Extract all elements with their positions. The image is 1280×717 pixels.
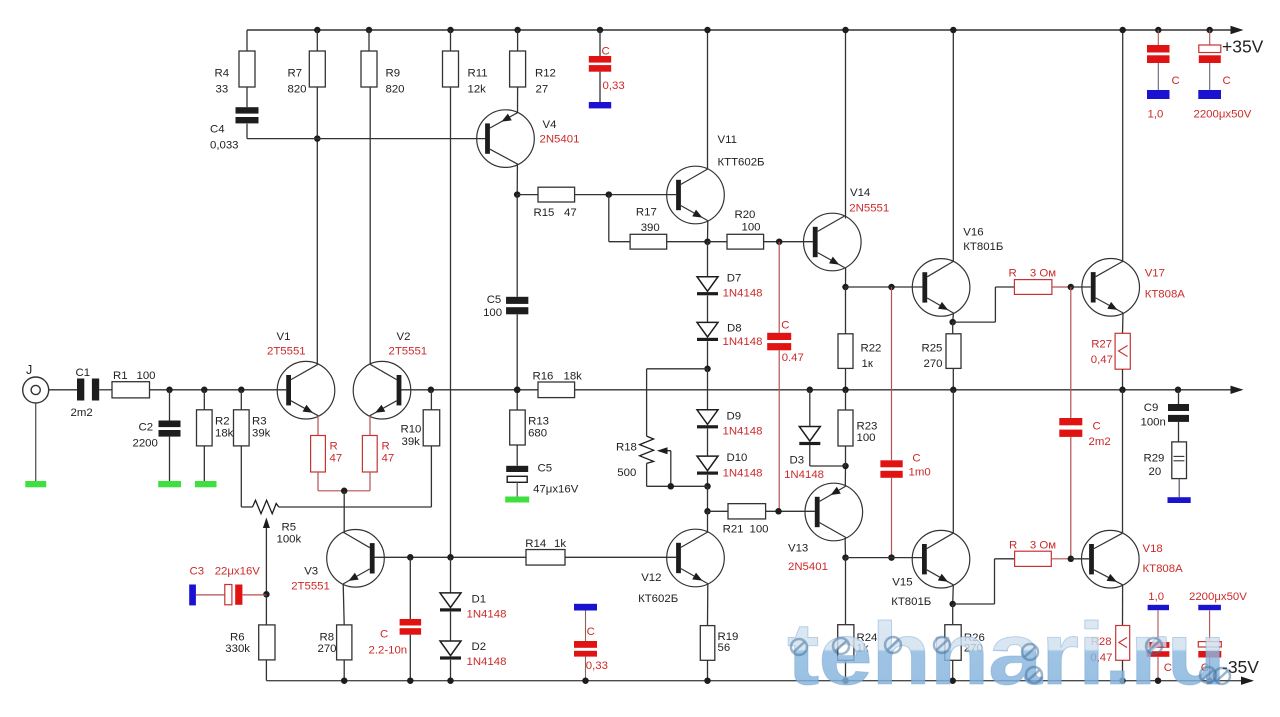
diode D2 1N4148 (450, 612, 452, 641)
wire V17 emitter to R27 (1122, 313, 1125, 333)
node R21 / red line (775, 508, 782, 515)
wire R3 to R5 (240, 446, 242, 507)
resistor R14 1k (526, 550, 565, 566)
transistor V13 2N5401 (805, 483, 863, 541)
node D2 bottom rail (447, 677, 454, 684)
node V2 base / R10 (428, 387, 435, 394)
wire rail to R9 (368, 30, 370, 51)
wire C 2.2-10n to bottom rail (409, 635, 411, 681)
wire -35V bottom rail (266, 680, 1248, 682)
wire R5 to R10 (279, 506, 432, 508)
transistor V3 2T5551 (327, 530, 385, 588)
node rail V17 collector (1119, 27, 1126, 34)
node rail / R12-V4 line (514, 387, 521, 394)
node V18 base / red line (1068, 556, 1075, 563)
wire C 2200 to bottom rail (1209, 658, 1211, 681)
transistor V4 2N5401 (477, 110, 535, 168)
wire R13 to C5 electrolytic (516, 445, 518, 466)
wire rail to C 2200 (1209, 30, 1211, 45)
node V16 emitter (949, 319, 956, 326)
resistor R13 680 (510, 410, 526, 445)
wire V4 emitter to R12 (517, 87, 519, 113)
capacitor C 2200ux50V (+35V) (1199, 45, 1221, 53)
resistor R 47 (V2 emitter) (362, 436, 377, 473)
wire D2 to bottom rail (450, 660, 452, 681)
terminal blue bar C 2200 (+35V) (1198, 90, 1221, 99)
wire V16 collector to rail (952, 30, 954, 262)
resistor R19 56 (700, 626, 715, 661)
wire red to C 2m2 (1070, 287, 1072, 418)
node rail R12 (514, 27, 521, 34)
node V13 collector (842, 554, 849, 561)
wire V15 emitter down (952, 585, 955, 604)
wire R24 to bottom rail (845, 660, 847, 680)
wire V14 emitter node to V16 base (846, 286, 923, 288)
connector J input jack (23, 377, 49, 403)
resistor R4 33 (239, 51, 255, 87)
diode D1 1N4148 (450, 557, 452, 593)
resistor R23 100 (838, 410, 853, 446)
capacitor C5 47ux16V electrolytic (506, 466, 528, 472)
diode D7 1N4148 (707, 242, 709, 277)
resistor R11 12k (443, 51, 459, 87)
capacitor C 2m2 (1059, 418, 1082, 425)
wire red C 0.47 to R21 node (778, 350, 780, 511)
node rail R7 (314, 27, 321, 34)
wire R17 to V11 emitter node (667, 241, 708, 243)
node R18 wiper (668, 483, 675, 490)
resistor R21 100 (728, 504, 766, 519)
node rail D3 (807, 387, 814, 394)
node C 1m0 red line (888, 284, 895, 291)
output rail arrow (1231, 386, 1244, 394)
node R8 bottom rail (341, 677, 348, 684)
terminal blue bar C 1,0 (-35V) (1148, 605, 1169, 610)
node R20 / C 0.47 (776, 238, 783, 245)
wire V4 collector node to C5 (516, 195, 518, 297)
wire V11 emitter to R20 (708, 241, 728, 243)
capacitor C1 2m2 (77, 379, 84, 401)
wire R 3 Ohm to V18 base node (1051, 558, 1071, 560)
wire V17 collector to rail (1122, 30, 1124, 262)
node rail R25 (950, 387, 957, 394)
wire R27 to rail (1122, 369, 1124, 390)
wire C 0,33 bypass (585, 611, 587, 642)
node rail V14 collector (842, 27, 849, 34)
wire node to C 2.2-10n (409, 557, 411, 619)
wire C 1,0 to bottom rail (1157, 657, 1159, 681)
resistor R29 20 (1172, 442, 1187, 479)
wire C 2200 (-35V) (1209, 610, 1211, 641)
wire C9 to R29 (1178, 422, 1180, 442)
wire C 0,33 bypass to rail (585, 657, 587, 681)
wire R47 V2 to common node (369, 472, 371, 491)
wire output rail (49, 389, 77, 391)
node diode chain mid (707, 341, 709, 369)
wire V1 collector (316, 87, 318, 364)
wire V14 collector to rail (845, 30, 847, 219)
resistor R10 39k (423, 410, 440, 446)
ground C5 (505, 497, 529, 503)
node C3 junction (263, 591, 270, 598)
capacitor C 1m0 (880, 460, 902, 467)
resistor R28 0,47 (1116, 626, 1130, 661)
wire V13 collector node to R24 (845, 558, 847, 625)
capacitor C 0,33 (+35V bypass) (589, 56, 611, 63)
wire V16 emitter down (952, 313, 955, 322)
ground R2 (195, 481, 217, 487)
wire R3 branch (240, 390, 242, 410)
wire V15 emitter to R26 (952, 604, 954, 625)
wire V13 collector down (844, 538, 846, 558)
terminal blue bar R29 (1168, 497, 1191, 503)
wire node down to R17 (608, 195, 610, 242)
node C 2.2-10n (407, 554, 414, 561)
wire rail to C9 (1178, 390, 1180, 404)
resistor R26 270 (945, 625, 961, 661)
capacitor C3 22u16V (189, 585, 196, 606)
node V13 emitter / R23 / D3 (842, 463, 849, 470)
resistor R27 0,47 (1115, 333, 1130, 369)
wire R29 to terminal (1178, 479, 1180, 498)
capacitor C4 0,033 (236, 107, 259, 113)
node rail R16 left (514, 387, 521, 394)
wire V12 collector up (707, 511, 709, 532)
wire V11 emitter down (707, 221, 709, 242)
node rail R11 (447, 27, 454, 34)
-35V rail arrow (1241, 677, 1254, 685)
wire V3 base to R14 row (375, 556, 526, 558)
resistor R25 270 (946, 334, 961, 369)
node V15 emitter (949, 601, 956, 608)
wire R21 to V13 base (766, 510, 815, 512)
capacitor C 2.2-10n (400, 619, 422, 626)
resistor R20 100 (727, 234, 764, 249)
wire R14 to V12 base (565, 556, 676, 558)
wire C2 branch (169, 390, 171, 421)
node V14 emitter (842, 284, 849, 291)
wire V2 collector (369, 87, 371, 364)
wire +35V top rail (247, 29, 1240, 31)
wire R19 to bottom rail (707, 660, 709, 680)
wire C 1,0 to terminal (1157, 63, 1159, 90)
resistor R3 39k (234, 410, 250, 446)
wire rail to R12 (517, 30, 519, 51)
resistor R22 1k (838, 334, 853, 369)
terminal blue bar C 1,0 (+35V) (1147, 90, 1170, 99)
node rail V11 collector (704, 27, 711, 34)
R18 wiper arrow (657, 447, 668, 454)
transistor V11 KTT602B (667, 166, 725, 224)
resistor R7 820 (309, 51, 325, 87)
wire C4 to V4 base (246, 124, 248, 139)
terminal blue bar C 0,33 (-35V bypass) (574, 604, 597, 611)
wire rail to R11 (450, 30, 452, 51)
capacitor C 2200ux50V (-35V) (1198, 642, 1221, 647)
transistor V16 KT801B (912, 259, 970, 317)
wire R20 to V14 base (764, 241, 813, 243)
node V4 collector R15 (514, 191, 521, 198)
node C 1,0 bottom rail (1155, 677, 1162, 684)
wire R47 V1 to common node (317, 472, 319, 491)
node V11 emitter (704, 238, 711, 245)
wire R28 to bottom rail (1122, 660, 1124, 680)
diode D8 1N4148 (707, 296, 709, 323)
wire C5 to rail (516, 314, 518, 390)
wire V16 emitter jog to R 3 Ohm (953, 321, 996, 323)
node rail R22/R23 (842, 387, 849, 394)
wire C 2200 to terminal (1209, 63, 1211, 90)
resistor R16 18k (538, 382, 575, 398)
wire R 3 Ohm to V17 base node (1052, 286, 1071, 288)
transistor V15 KT801B (912, 530, 970, 588)
transistor V2 2T5551 (353, 361, 411, 419)
node C bottom rail (407, 677, 414, 684)
wire C3 node to R6 (265, 594, 267, 625)
wire R26 to bottom rail (952, 660, 954, 680)
resistor R1 100 (112, 382, 150, 398)
node rail V16 collector (950, 27, 957, 34)
wire rail to R7 (316, 30, 318, 51)
node R24 bottom rail (842, 677, 849, 684)
wire C 1,0 (-35V) (1157, 610, 1159, 642)
wire diode mid node to R18 (647, 368, 708, 370)
capacitor C 0,33 (-35V bypass) (574, 641, 597, 648)
transistor V14 2N5551 (804, 213, 862, 271)
resistor R9 820 (361, 51, 377, 87)
+35V rail arrow (1231, 26, 1244, 34)
node rail C 2200ux50V (+35V) (1206, 27, 1213, 34)
wire node to V18 base (1071, 558, 1089, 560)
wire V4 collector down (516, 164, 518, 195)
wire R15 to V11 base (575, 194, 677, 196)
wire V12 emitter to R19 (707, 584, 709, 626)
wire V18 emitter to R28 (1122, 585, 1124, 626)
resistor R15 47 (538, 187, 575, 202)
wire jack to ground (35, 403, 37, 481)
wire V15 collector to rail (952, 390, 954, 534)
wire rail to R23 (845, 390, 847, 410)
wire rail to R4 (246, 30, 248, 51)
transistor V18 KT808A (1082, 530, 1140, 588)
capacitor C 0.47 (767, 333, 791, 340)
node rail R27/V18 (1119, 387, 1126, 394)
wire R6 to bottom rail (265, 660, 267, 681)
wire V14 emitter to R22 (845, 287, 847, 334)
wire R21 node to D10 node (708, 510, 729, 512)
wire V13 emitter up (844, 466, 846, 486)
wire R2 branch (203, 390, 205, 410)
capacitor C5 100 (506, 297, 528, 304)
resistor R24 1k (838, 625, 854, 661)
node R15/R17 (606, 191, 613, 198)
wire R23 to V13 emitter node (845, 446, 847, 466)
wire to R15 (517, 194, 538, 196)
resistor R17 390 (630, 234, 667, 249)
wire R8 to bottom rail (343, 660, 345, 681)
capacitor C2 2200 (159, 421, 181, 428)
wire R22 to rail (845, 368, 847, 389)
wire V18 collector to output rail (1122, 390, 1124, 534)
wire C2 to ground (169, 437, 171, 481)
node R11 / R14 (447, 554, 454, 561)
wire R10 top (430, 390, 432, 410)
potentiometer R18 500 (640, 436, 654, 463)
node R26 bottom rail (949, 677, 956, 684)
resistor R 47 (V1 emitter) (311, 436, 326, 473)
wire C5 electrolytic to ground (516, 482, 518, 496)
wire R5 tap arrow (265, 527, 267, 594)
wire V15 emitter jog to R 3 Ohm (953, 603, 995, 605)
wire V14 emitter down (845, 268, 847, 287)
wire V13 collector to V15 base (846, 557, 923, 559)
transistor V17 KT808A (1082, 259, 1140, 317)
resistor R 3 Ohm (V15) (1015, 551, 1052, 566)
wire R4 to C4 (246, 87, 248, 107)
diode D9 1N4148 (707, 369, 709, 410)
capacitor C 1,0 (+35V) (1147, 45, 1170, 53)
wire red C 2m2 to V18 base node (1070, 437, 1072, 559)
node C 0,33 bottom rail (582, 677, 589, 684)
wire red C 1m0 lower (891, 478, 893, 558)
wire red C 1m0 upper (891, 287, 893, 460)
wire pot node to R21 node (707, 486, 709, 511)
wire red to C 0.47 (778, 242, 780, 333)
resistor R8 270 (337, 625, 352, 660)
junction dots on input node (166, 387, 173, 394)
transistor V1 2T5551 (277, 361, 335, 419)
wire node to V17 base (1071, 286, 1091, 288)
ground C2 (158, 481, 181, 487)
wire R25 to rail (952, 368, 954, 389)
node V17 base / red line (1068, 284, 1075, 291)
transistor V12 KT602B (667, 529, 725, 587)
resistor R12 27 (510, 51, 526, 87)
wire C 0,33 to terminal (599, 72, 601, 102)
resistor R6 330k (259, 625, 275, 660)
diode D3 1N4148 (809, 390, 811, 427)
node rail C9 (1175, 387, 1182, 394)
terminal blue bar C 2200 (-35V) (1198, 605, 1221, 610)
node emitter resistors common (341, 488, 348, 495)
node C 2200 bottom rail (1206, 677, 1213, 684)
wire R18 bottom (646, 463, 648, 486)
wire D3 to V13 emitter node (809, 445, 811, 466)
wire R2 to ground (203, 446, 205, 481)
resistor R5 100k (253, 500, 279, 513)
node V13 collector to V15 base (888, 554, 895, 561)
node V1 collector / C4 line (314, 135, 321, 142)
wire rail to C 0,33 (599, 30, 601, 56)
node rail R9 (366, 27, 373, 34)
wire R11 down to R14 node (450, 87, 452, 557)
wire V3 emitter to R8 (343, 584, 344, 625)
node R19 bottom rail (704, 677, 711, 684)
terminal blue bar C 0,33 (589, 102, 611, 108)
capacitor C9 100n (1168, 404, 1189, 411)
wire rail to R13 (516, 390, 518, 410)
wire V1 emitter to R emitter resistor (317, 416, 319, 436)
node R28 bottom rail (1119, 677, 1126, 684)
node rail bypass C (597, 27, 604, 34)
node rail C 1,0 (+35V) (1155, 27, 1162, 34)
wire V2 emitter to R emitter resistor (369, 416, 371, 436)
wire rail to C 1,0 (1157, 30, 1159, 45)
capacitor C 1,0 (-35V) (1147, 642, 1170, 648)
wire V11 collector to rail (707, 30, 709, 169)
wire V16 emitter to R25 (952, 322, 954, 334)
diode D10 1N4148 (707, 429, 709, 457)
ground jack (25, 481, 46, 487)
resistor R2 18k (197, 410, 213, 446)
wire D10 to pot node (707, 475, 709, 486)
wire common node to V3 collector (343, 491, 345, 534)
resistor R 3 Ohm (V16) (1014, 280, 1052, 295)
